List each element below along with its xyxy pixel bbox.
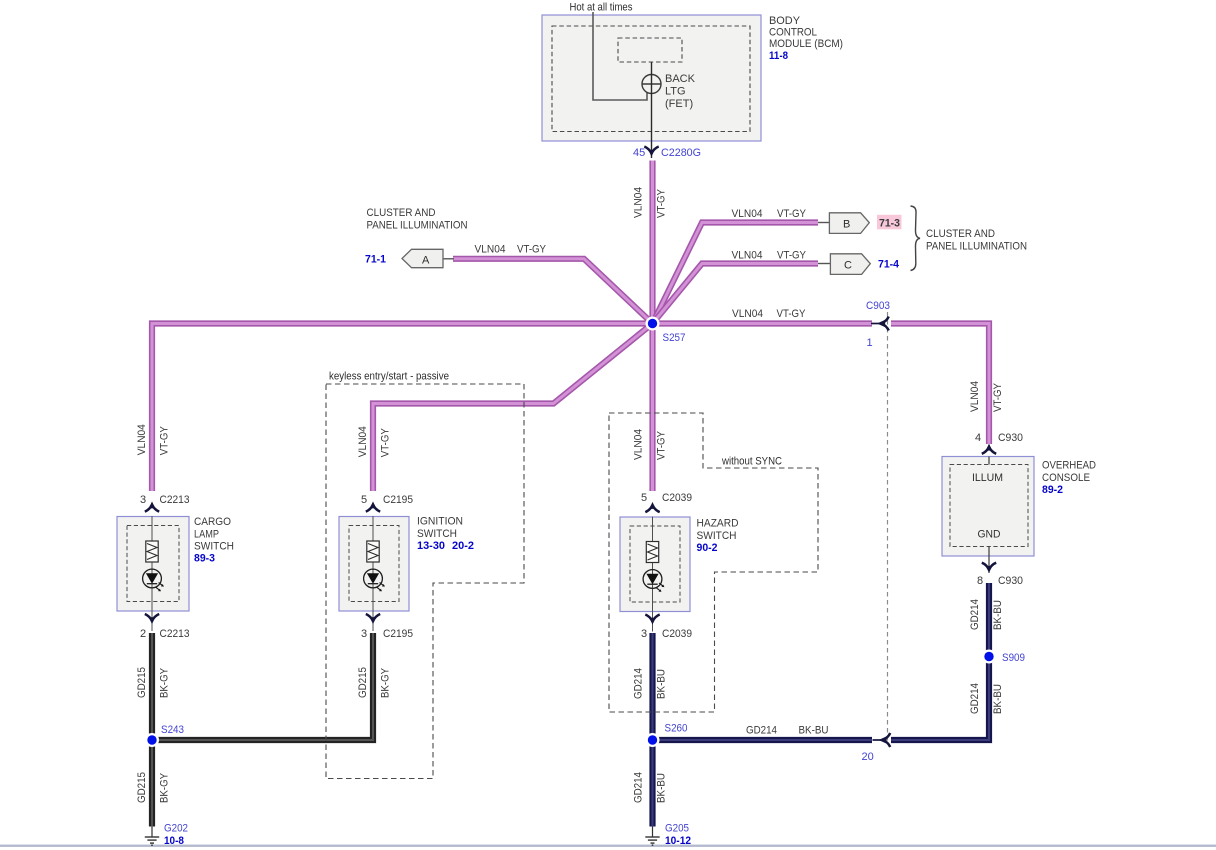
svg-text:GD214: GD214 (746, 725, 777, 737)
svg-text:C2280G: C2280G (661, 147, 701, 159)
label: pin 3 / C2213 (140, 494, 190, 506)
wire VLN04 VT-GY: splice S257 to ignition switch pin 5 (373, 324, 653, 492)
wire: BCM output vertical (651, 62, 653, 158)
svg-text:GD214: GD214 (633, 772, 645, 803)
wire VLN04 VT-GY: C2280G to splice S257 (649, 161, 655, 324)
svg-text:CONSOLE: CONSOLE (1042, 472, 1090, 484)
wire VLN04 VT-GY: splice S257 left to cargo lamp switch pin 3 (152, 324, 653, 492)
svg-text:VT-GY: VT-GY (380, 428, 392, 458)
svg-text:VT-GY: VT-GY (517, 244, 547, 256)
brace: cluster and panel illumination group (911, 206, 921, 271)
pin arrow out of cargo lamp switch pin 2 (145, 614, 159, 624)
svg-text:BACK: BACK (665, 73, 696, 85)
svg-text:VLN04: VLN04 (633, 187, 645, 218)
switch box: HAZARD SWITCH (620, 517, 690, 612)
svg-text:2: 2 (140, 628, 146, 640)
wire GD214 BK-BU: splice S260 right to inline connector C903 pin 20 (653, 737, 873, 743)
svg-text:C930: C930 (998, 432, 1023, 444)
svg-text:C: C (844, 260, 852, 272)
svg-text:71-1: 71-1 (365, 254, 386, 266)
svg-text:5: 5 (361, 494, 367, 506)
connector C pentagon (818, 254, 870, 275)
svg-text:VT-GY: VT-GY (777, 208, 807, 220)
svg-text:VLN04: VLN04 (633, 429, 645, 460)
svg-text:S260: S260 (665, 723, 688, 735)
svg-text:SWITCH: SWITCH (697, 530, 737, 542)
label: pin 2 / C2213 (140, 628, 190, 640)
ground G202 (145, 827, 159, 847)
connector arrow C2280G pin 45 (out of BCM) (644, 147, 658, 157)
svg-text:VT-GY: VT-GY (777, 308, 807, 320)
wire GD215 BK-GY: ignition switch pin 3 down and left to splice S243 (152, 633, 373, 740)
svg-text:89-2: 89-2 (1042, 484, 1063, 496)
module box: OVERHEAD CONSOLE (942, 457, 1034, 574)
module U1: BODY CONTROL MODULE (BCM) box (542, 15, 761, 141)
svg-text:VLN04: VLN04 (475, 244, 506, 256)
BCM driver BACK LTG (FET) circle symbol (642, 75, 661, 94)
svg-text:VT-GY: VT-GY (992, 382, 1004, 412)
svg-text:Hot at all times: Hot at all times (570, 2, 633, 14)
label: BACK LTG (FET) (665, 73, 696, 110)
svg-text:4: 4 (975, 432, 981, 444)
dashed link line of inline connector C903 (887, 312, 889, 742)
svg-text:HAZARD: HAZARD (697, 518, 739, 530)
svg-text:VT-GY: VT-GY (656, 430, 668, 460)
wire VLN04 VT-GY: splice S257 to connector A (453, 259, 653, 324)
svg-text:OVERHEAD: OVERHEAD (1042, 460, 1096, 472)
svg-text:71-4: 71-4 (878, 259, 900, 271)
svg-text:90-2: 90-2 (697, 542, 718, 554)
label: BODY CONTROL MODULE (BCM) 11-8 (769, 15, 843, 62)
label: pin 4 / C930 (975, 432, 1023, 444)
svg-text:45: 45 (633, 147, 645, 159)
svg-text:S257: S257 (663, 332, 686, 344)
switch box: IGNITION SWITCH (339, 517, 409, 612)
pin arrow into cargo lamp switch pin 3 (145, 502, 159, 512)
pin arrow out of overhead console pin 8 (982, 563, 996, 573)
svg-text:BK-GY: BK-GY (380, 667, 392, 698)
label: G202 10-8 (164, 823, 188, 848)
svg-text:11-8: 11-8 (769, 50, 788, 62)
pin arrow out of ignition switch pin 3 (366, 614, 380, 624)
label: pin 5 / C2195 (361, 494, 413, 506)
svg-text:C2195: C2195 (383, 494, 413, 506)
svg-text:B: B (843, 219, 850, 231)
hazard switch internals (resistor + LED) (643, 517, 664, 632)
svg-text:C2213: C2213 (160, 628, 190, 640)
pin arrow into hazard switch pin 5 (645, 502, 659, 512)
svg-text:C2039: C2039 (662, 628, 692, 640)
svg-text:C903: C903 (866, 300, 890, 312)
footer border line (0, 845, 1216, 847)
svg-text:GD214: GD214 (633, 668, 645, 699)
pin arrow into overhead console pin 4 (982, 444, 996, 454)
label: CLUSTER AND PANEL ILLUMINATION (right) (926, 228, 1027, 252)
svg-text:C2213: C2213 (160, 494, 190, 506)
svg-text:3: 3 (641, 628, 647, 640)
svg-text:5: 5 (641, 492, 647, 504)
svg-text:BODY: BODY (769, 15, 801, 27)
svg-text:keyless entry/start - passive: keyless entry/start - passive (329, 371, 449, 383)
svg-text:without SYNC: without SYNC (721, 456, 782, 468)
svg-text:GD214: GD214 (969, 683, 981, 714)
svg-text:GD215: GD215 (136, 772, 148, 803)
wire VLN04 VT-GY: splice S257 to connector B (653, 223, 819, 324)
label: pin 5 / C2039 (641, 492, 692, 504)
label: CLUSTER AND PANEL ILLUMINATION (left) (367, 207, 468, 231)
svg-text:C2039: C2039 (662, 492, 692, 504)
splice S243 (145, 733, 159, 747)
svg-text:C2195: C2195 (383, 628, 413, 640)
svg-text:VLN04: VLN04 (732, 208, 763, 220)
svg-text:20-2: 20-2 (452, 540, 474, 552)
svg-text:VT-GY: VT-GY (159, 426, 171, 456)
svg-text:CARGO: CARGO (194, 516, 231, 528)
wire: BCM internal feed from Hot at all times (593, 12, 647, 100)
svg-text:GND: GND (978, 529, 1001, 541)
svg-text:71-3: 71-3 (879, 218, 900, 230)
svg-text:BK-BU: BK-BU (992, 684, 1004, 714)
svg-text:GD215: GD215 (357, 667, 369, 698)
svg-text:BK-BU: BK-BU (992, 600, 1004, 630)
dashed region: without SYNC (hazard switch) (609, 413, 818, 712)
label: 71-3 page reference (highlighted) (877, 215, 902, 230)
svg-text:3: 3 (361, 628, 367, 640)
inline connector C903 pin 1 arrow (871, 317, 889, 331)
splice S260 (646, 733, 660, 747)
svg-text:GD215: GD215 (136, 667, 148, 698)
svg-text:G205: G205 (665, 823, 689, 835)
svg-text:BK-BU: BK-BU (656, 773, 668, 803)
svg-text:(FET): (FET) (665, 98, 693, 110)
svg-text:GD214: GD214 (969, 599, 981, 630)
wire VLN04 VT-GY: splice S257 right to inline connector C903 (653, 320, 873, 326)
wire GD214 BK-BU: inline connector C903 pin 20 to overhead console pin 8 through S909 (891, 583, 989, 740)
svg-text:VLN04: VLN04 (136, 424, 148, 455)
svg-text:1: 1 (867, 337, 873, 349)
wire VLN04 VT-GY: splice S257 to connector C (653, 264, 819, 324)
label: HAZARD SWITCH 90-2 (697, 518, 739, 555)
wire GD214 BK-BU: hazard switch pin 3 down to ground G205 through S260 (649, 633, 655, 827)
svg-text:10-12: 10-12 (665, 835, 691, 847)
inline connector C903 pin 20 arrow (873, 733, 891, 747)
svg-text:10-8: 10-8 (164, 835, 184, 847)
splice S909 (982, 650, 996, 664)
svg-text:BK-BU: BK-BU (799, 725, 829, 737)
svg-text:IGNITION: IGNITION (417, 516, 463, 528)
label: pin 8 / C930 (977, 575, 1023, 587)
svg-text:PANEL ILLUMINATION: PANEL ILLUMINATION (926, 240, 1027, 252)
svg-text:SWITCH: SWITCH (194, 541, 234, 553)
svg-text:BK-GY: BK-GY (159, 667, 171, 698)
svg-text:VLN04: VLN04 (357, 426, 369, 457)
svg-text:ILLUM: ILLUM (972, 472, 1003, 484)
svg-text:LAMP: LAMP (194, 528, 219, 540)
svg-text:VLN04: VLN04 (969, 381, 981, 412)
ignition switch internals (resistor + LED) (364, 516, 385, 631)
svg-text:A: A (422, 254, 430, 266)
svg-text:3: 3 (140, 494, 146, 506)
svg-text:CLUSTER AND: CLUSTER AND (367, 207, 436, 219)
svg-text:S909: S909 (1002, 652, 1025, 664)
BCM internal dashed sub-block (618, 38, 682, 62)
label: OVERHEAD CONSOLE 89-2 (1042, 460, 1096, 497)
wire GD215 BK-GY: cargo lamp switch pin 2 down to ground G202 through S243 (149, 633, 155, 827)
connector B pentagon (818, 213, 869, 234)
svg-text:BK-BU: BK-BU (656, 669, 668, 699)
wire VLN04 VT-GY: splice S257 down to hazard switch pin 5 (649, 324, 655, 492)
pin arrow out of hazard switch pin 3 (645, 615, 659, 625)
svg-text:20: 20 (862, 751, 874, 763)
label: pin 3 / C2195 (361, 628, 413, 640)
svg-text:8: 8 (977, 575, 983, 587)
svg-text:VLN04: VLN04 (732, 308, 763, 320)
svg-text:LTG: LTG (665, 86, 686, 98)
switch box: CARGO LAMP SWITCH (117, 517, 189, 612)
svg-text:MODULE (BCM): MODULE (BCM) (769, 38, 843, 50)
cargo lamp switch internals (resistor + LED) (143, 516, 164, 631)
svg-text:89-3: 89-3 (194, 553, 215, 565)
label: IGNITION SWITCH 13-30 20-2 (417, 516, 474, 553)
ground G205 (645, 827, 659, 847)
wire VLN04 VT-GY: inline connector C903 to overhead console pin 4 (891, 324, 989, 445)
svg-text:G202: G202 (164, 823, 188, 835)
label: pin 3 / C2039 (641, 628, 692, 640)
svg-text:VLN04: VLN04 (732, 249, 763, 261)
label: CARGO LAMP SWITCH 89-3 (194, 516, 234, 565)
label: G205 10-12 (665, 823, 691, 848)
pin arrow into ignition switch pin 5 (366, 502, 380, 512)
svg-text:CONTROL: CONTROL (769, 27, 817, 39)
dashed region: keyless entry/start - passive (326, 384, 524, 779)
svg-text:VT-GY: VT-GY (656, 188, 668, 218)
svg-text:VT-GY: VT-GY (777, 249, 807, 261)
svg-text:13-30: 13-30 (417, 540, 445, 552)
svg-text:PANEL ILLUMINATION: PANEL ILLUMINATION (367, 219, 468, 231)
svg-text:CLUSTER AND: CLUSTER AND (926, 228, 995, 240)
svg-text:SWITCH: SWITCH (417, 528, 457, 540)
svg-text:BK-GY: BK-GY (159, 772, 171, 803)
svg-text:C930: C930 (998, 575, 1023, 587)
connector A pentagon (402, 249, 454, 267)
svg-text:S243: S243 (161, 724, 184, 736)
splice S257 (646, 317, 660, 331)
